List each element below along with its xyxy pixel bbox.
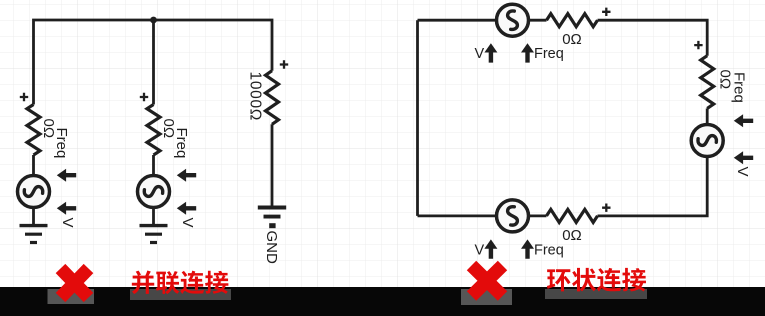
black bottom bar <box>0 287 765 316</box>
ground symbol 1 <box>20 224 48 227</box>
wire: R5 to V4 <box>706 108 709 126</box>
wire: branch 2 drop <box>152 20 155 105</box>
AC source V2 <box>138 176 170 208</box>
wire: bottom-left segment <box>418 214 498 217</box>
svg-text:V: V <box>475 242 485 258</box>
svg-text:GND: GND <box>263 231 280 265</box>
wire: V1 to ground <box>32 208 35 226</box>
svg-text:V: V <box>734 167 751 177</box>
svg-text:0Ω: 0Ω <box>562 227 582 244</box>
AC source V5 (bottom) <box>497 200 529 232</box>
wire: ring left side <box>416 20 419 216</box>
wire: R4 to top-right corner <box>598 20 708 56</box>
jpeg halo left X <box>48 289 95 304</box>
svg-text:Freq: Freq <box>53 128 70 159</box>
wire: R2 to V2 <box>152 155 155 176</box>
annotation text: bing lian lian jie <box>132 271 154 294</box>
jpeg halo right X <box>461 289 512 305</box>
wire: V4 to bottom-right corner <box>598 157 708 216</box>
svg-text:Freq: Freq <box>173 128 190 159</box>
wire: R1 to V1 <box>32 155 35 176</box>
resistor R5 0ohm (right side) <box>701 56 714 109</box>
arrow Freq of V3 <box>521 43 534 62</box>
red X mark left <box>61 269 89 298</box>
annotation text: huan zhuang lian jie <box>547 269 571 291</box>
wire: left circuit top bus <box>34 20 273 105</box>
svg-text:V: V <box>475 46 485 62</box>
arrow V of V4 <box>734 151 753 164</box>
jpeg halo right text <box>545 289 647 299</box>
ground symbol 2 <box>140 224 168 227</box>
AC source V3 (top) <box>497 4 529 36</box>
ground symbol GND (named) <box>258 206 286 210</box>
red X mark right <box>472 266 503 297</box>
resistor R4 0ohm (top) <box>547 14 598 27</box>
resistor R3 1000ohm <box>266 71 279 125</box>
svg-text:1000Ω: 1000Ω <box>247 72 264 122</box>
arrow V of V5 <box>484 239 497 258</box>
svg-text:V: V <box>179 218 196 228</box>
resistor R1 (0ohm) <box>27 105 40 156</box>
arrow Freq V2 <box>177 169 196 182</box>
wire: R3 to GND <box>271 124 274 207</box>
resistor R6 0ohm (bottom) <box>547 209 598 222</box>
label + polarity R6 <box>602 204 610 212</box>
wire: V3 to R4 <box>529 19 547 22</box>
label + polarity R2 <box>140 93 148 101</box>
arrow V of V3 <box>484 43 497 62</box>
arrow Freq of V5 <box>521 239 534 258</box>
wire: V5 to R6 <box>529 214 547 217</box>
wire: ring top-left segment <box>418 19 498 22</box>
arrow V of V1 <box>57 202 76 215</box>
svg-text:0Ω: 0Ω <box>562 31 582 48</box>
label + polarity R1 <box>20 93 28 101</box>
label + polarity R5 <box>694 41 702 49</box>
arrow V of V2 <box>177 202 196 215</box>
svg-text:Freq: Freq <box>534 46 564 62</box>
AC source V1 <box>18 176 50 208</box>
svg-text:Freq: Freq <box>534 242 564 258</box>
arrow Freq of V4 <box>734 114 753 127</box>
AC source V4 (right side) <box>691 125 723 157</box>
arrow Freq V1 <box>57 169 76 182</box>
resistor R2 (0ohm) <box>147 105 160 156</box>
wire: V2 to ground <box>152 208 155 226</box>
svg-text:V: V <box>59 218 76 228</box>
svg-text:Freq: Freq <box>731 72 748 103</box>
label + polarity R3 <box>280 60 288 68</box>
jpeg halo left text <box>130 289 231 300</box>
junction node: branch 2 tap on top bus <box>150 17 157 24</box>
label + polarity R4 <box>602 8 610 16</box>
